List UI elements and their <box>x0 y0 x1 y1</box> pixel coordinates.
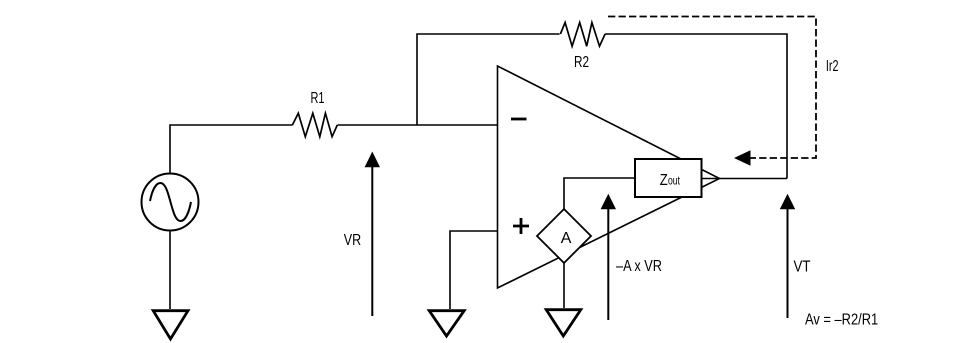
svg-text:out: out <box>668 174 680 188</box>
wire diamond bottom to ground <box>563 263 565 308</box>
sine wave <box>150 183 191 221</box>
svg-text:Av = –R2/R1: Av = –R2/R1 <box>805 312 878 329</box>
wire source bottom to ground <box>169 231 171 310</box>
svg-text:A: A <box>561 230 572 247</box>
wire non-inverting input <box>450 231 498 309</box>
svg-text:R2: R2 <box>574 54 589 71</box>
arrowhead Ir2 <box>734 150 751 165</box>
arrow -A x VR <box>607 208 609 320</box>
svg-text:VT: VT <box>794 258 811 275</box>
arrow VT <box>787 208 789 318</box>
ground (non-inverting input) <box>429 311 464 336</box>
svg-text:–A x VR: –A x VR <box>616 258 662 275</box>
svg-text:Z: Z <box>660 172 668 189</box>
wire op-amp output <box>702 178 788 180</box>
dependent source A (diamond) <box>537 209 591 263</box>
AC source V1 <box>142 174 199 231</box>
wire R1 to inverting input <box>338 124 498 126</box>
resistor R2 <box>560 23 605 47</box>
plus sign (non-inverting input) <box>513 218 529 234</box>
svg-text:Ir2: Ir2 <box>826 58 839 75</box>
Zout box <box>635 159 702 197</box>
wire source top to input node <box>170 125 293 173</box>
svg-text:VR: VR <box>344 232 361 249</box>
svg-text:R1: R1 <box>311 90 325 107</box>
ground (source) <box>153 311 188 339</box>
wire R2 to output riser <box>605 34 787 179</box>
minus sign (inverting input) <box>511 118 527 121</box>
op-amp U1 <box>498 66 720 288</box>
arrow VR <box>371 165 373 316</box>
wire feedback riser <box>417 34 560 125</box>
dashed current path Ir2 <box>608 17 816 159</box>
resistor R1 <box>292 113 337 137</box>
ground (dependent source) <box>546 310 581 336</box>
wire diamond top to Zout <box>564 178 635 209</box>
